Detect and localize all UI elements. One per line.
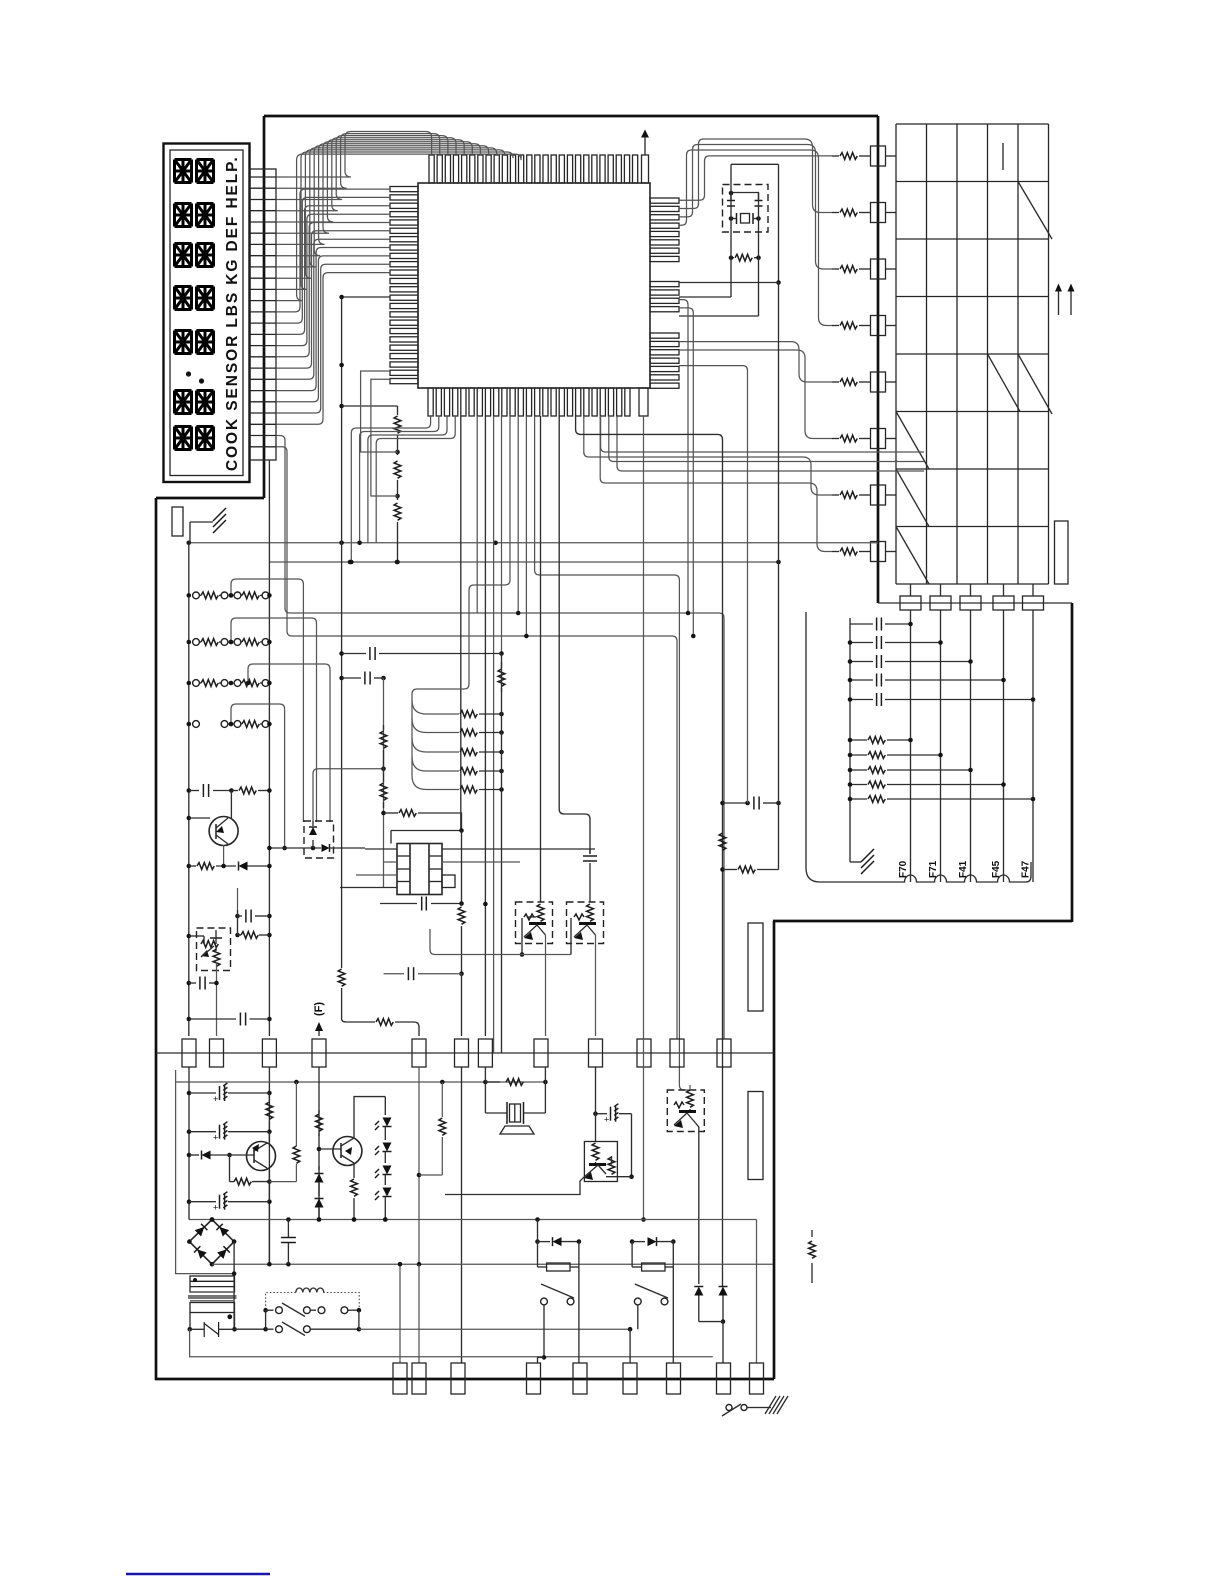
wire MCU bottom drop j12 <box>525 416 527 636</box>
wire jumper taps <box>231 579 303 822</box>
arrow indicator up 1 <box>1058 290 1060 315</box>
wire stub left <box>445 1194 470 1196</box>
connector CN2 pin2 <box>412 1363 426 1394</box>
svg-text:+: + <box>213 1133 218 1143</box>
key matrix grid <box>895 124 897 584</box>
tall connector strip 1 <box>748 923 763 1011</box>
capacitor C-key2 <box>850 642 873 644</box>
digital transistor Q3 dashed box <box>197 928 231 971</box>
wire Q11 collector resistor <box>353 1163 355 1178</box>
connector pin row2 <box>871 203 886 223</box>
wire MCU bottom drop j8 <box>493 416 495 1053</box>
wire column bus down <box>910 610 912 882</box>
resistor R-key4 <box>850 784 867 786</box>
capacitor C14 <box>339 651 344 656</box>
connector pin row3 <box>871 259 886 279</box>
connector strip right of matrix <box>1055 521 1069 584</box>
wire bottom border <box>155 1378 774 1381</box>
relay RY1 contact set 2 <box>263 1327 268 1332</box>
resonator X1 dashed box <box>723 185 769 233</box>
wire right pin drop to rail y613 <box>679 300 688 613</box>
connector pin row5 <box>871 372 886 392</box>
capacitor C-key3 <box>850 661 873 663</box>
wire bundle MCU bottom left curl <box>351 416 430 562</box>
connector CN2 pin9 <box>750 1363 764 1394</box>
wire resonator loop top <box>731 163 779 165</box>
key matrix column connectors <box>910 584 912 596</box>
wire rail y542 <box>189 542 878 544</box>
switch SW1 <box>578 1267 580 1363</box>
key S1 diagonal row2 col5 <box>1018 182 1052 240</box>
display DS1 outer frame <box>164 144 250 483</box>
base resistor Q13 <box>674 1102 684 1108</box>
ground keypad <box>849 852 851 862</box>
switch SW2 <box>634 1298 641 1305</box>
capacitor C24 <box>287 1220 289 1238</box>
resistor R-row5 <box>832 381 839 383</box>
link underline <box>126 1573 270 1576</box>
display 14-segment digit row5 col1 <box>175 331 192 354</box>
wire x461 down <box>461 831 463 904</box>
resistor R30 vertical <box>501 662 503 668</box>
key S2 diagonal row5 col4 <box>988 354 1021 412</box>
capacitor C-key4 <box>850 679 873 681</box>
connector CN1 pin9 <box>589 1039 603 1067</box>
key S3 diagonal row5 col5 <box>1018 354 1052 414</box>
resistor R35 near F <box>342 1019 375 1022</box>
diode D13 <box>535 1217 540 1222</box>
wire display comb pin25 long run <box>276 447 677 1039</box>
electrolytic C21 <box>187 1129 192 1134</box>
wire chain tap 1 <box>361 371 398 452</box>
display 14-segment digit row3 col1 <box>175 244 192 267</box>
jumper resistor row 2 <box>187 640 192 645</box>
base resistor Q6 <box>574 914 584 920</box>
wire transformer top link <box>391 830 462 832</box>
display 14-segment digit row1 col2 <box>197 160 214 183</box>
resonator X1 internal capacitors <box>727 200 735 202</box>
resistor R41 <box>720 867 725 872</box>
svg-text:+: + <box>604 1115 609 1125</box>
base resistor Q5 <box>524 914 534 920</box>
resistor R51 base <box>229 1155 231 1182</box>
relay RY1 contact set 1 <box>263 1308 268 1313</box>
svg-text:F47: F47 <box>1021 860 1032 878</box>
wire MCU bottom drop j9 <box>501 416 503 654</box>
wire x545 lower <box>544 1067 546 1082</box>
thermal cutout on primary <box>189 1313 191 1330</box>
driver box Q12 <box>584 1142 617 1182</box>
capacitor C17 <box>384 973 405 975</box>
VCC arrow <box>644 137 646 155</box>
wire MCU osc return <box>679 296 731 298</box>
resistor R-key5 <box>850 798 867 800</box>
arrow indicator up 2 <box>1070 290 1072 315</box>
wire rail x501 vertical <box>501 654 503 1054</box>
resistor R59 standalone <box>811 1230 813 1237</box>
digital transistor Q6 dashed box <box>567 902 604 944</box>
transistor Q2 circle <box>209 817 238 846</box>
key tick row1 col4 <box>1002 143 1004 170</box>
wire bundle display to MCU top pins <box>276 132 432 178</box>
resistor R-ladder5 <box>412 776 459 790</box>
wire rail y1264 <box>212 1263 773 1265</box>
connector CN1 pin5 <box>412 1039 426 1067</box>
wire resonator left leg <box>730 164 732 297</box>
resistor across resonator <box>731 257 734 259</box>
connector CN1 pin11 <box>670 1039 684 1067</box>
capacitor C16 <box>380 903 417 905</box>
connector pin row4 <box>871 316 886 336</box>
wire matrix bottom link <box>878 602 1072 604</box>
electrolytic C23 <box>593 1111 598 1116</box>
jumper row 4 <box>187 722 192 727</box>
wire bottom switch <box>726 1405 732 1411</box>
wire rail y562 <box>269 561 778 563</box>
display 14-segment digit row5 col2 <box>197 331 214 354</box>
wire Q11 emitter top <box>354 1097 385 1138</box>
connector CN1 pin2 <box>210 1039 224 1067</box>
resistor R56 in box <box>608 1157 615 1174</box>
buzzer BZ1 <box>484 1082 486 1113</box>
connector pin row7 <box>871 485 886 505</box>
capacitor C-key1 <box>850 623 873 625</box>
resistor R20 <box>235 933 240 938</box>
resistor R31 vertical <box>383 725 385 730</box>
wire x485 vertical <box>484 904 486 1036</box>
display 14-segment digit row6 col2 <box>197 391 214 414</box>
wire lower left drop <box>176 1070 234 1274</box>
wire rail x383 <box>383 678 385 887</box>
resistor R-key3 <box>850 769 867 771</box>
wire switch rail y1219 corner <box>756 1220 758 1364</box>
display 14-segment digit row4 col2 <box>197 287 214 310</box>
connector pin row1 <box>871 146 886 166</box>
wire right pin drop to rail y636 <box>679 308 693 636</box>
connector CN1 pin10 <box>637 1039 651 1067</box>
wire MCU to resonator bottom <box>679 282 779 284</box>
wire lower rail B <box>268 1067 270 1264</box>
connector CN1 pin4 <box>312 1039 326 1067</box>
resistor R-ladder1 <box>412 700 459 714</box>
connector tab <box>172 507 183 536</box>
wire right border lower <box>773 921 776 1379</box>
resistor R58 rect <box>631 1242 633 1267</box>
capacitor C15 <box>339 676 344 681</box>
MCU U1 left pin comb <box>390 187 418 192</box>
wire x723 rail <box>576 416 723 1287</box>
wire MCU bottom pins to matrix rows 7-8 <box>584 416 832 495</box>
resistor and diode row <box>187 864 192 869</box>
transistor Q10 <box>247 1142 276 1171</box>
wire diode join <box>699 1321 723 1323</box>
tall connector strip 2 <box>748 1092 763 1180</box>
resistor R50 vertical <box>268 1093 270 1101</box>
svg-text:F70: F70 <box>898 860 909 878</box>
wire rail y1082 <box>176 1081 545 1083</box>
connector CN1 pin1 <box>182 1039 196 1067</box>
resistor R-ladder2 <box>412 719 459 733</box>
display connector comb <box>250 169 276 460</box>
svg-text:F41: F41 <box>958 860 969 878</box>
keypad cable boundary <box>806 612 1031 882</box>
wire relay to switches rail <box>359 1328 630 1330</box>
transformer T2 core <box>188 1295 237 1297</box>
wire Q13 collector top <box>689 1085 691 1090</box>
connector CN1 pin8 <box>534 1039 548 1067</box>
capacitor C10 with resistor <box>187 788 192 793</box>
wire base rail <box>430 929 571 955</box>
wire primary to relay <box>235 1328 266 1330</box>
key S5 diagonal row7 col1 <box>896 469 929 527</box>
wire chain tap 2 <box>371 379 398 496</box>
capacitor C19 <box>723 802 751 804</box>
svg-text:F45: F45 <box>991 860 1002 878</box>
transistor Q11 <box>333 1137 362 1166</box>
wire rail y1219 <box>189 1219 757 1221</box>
resistor R53 <box>318 1110 320 1113</box>
electrolytic C20 <box>187 1091 192 1096</box>
wire left pin drop rail3 <box>342 297 390 968</box>
transformer T1 <box>397 844 442 895</box>
connector CN1 pin6 <box>455 1039 469 1067</box>
diode D14 <box>630 1239 635 1244</box>
wire rail C <box>318 1067 320 1220</box>
wire keypad left rail <box>849 618 851 852</box>
transformer T2 secondary winding <box>190 1276 235 1292</box>
diode D16 <box>719 1287 728 1296</box>
display DS1 inner frame <box>170 150 243 476</box>
relay RY1 coil <box>296 1288 324 1293</box>
wire T1 left leads <box>365 848 397 850</box>
connector CN1 pin3 <box>262 1039 276 1067</box>
dashed transistor Q13 <box>667 1090 704 1132</box>
svg-text:COOK SENSOR LBS KG DEF HELP.: COOK SENSOR LBS KG DEF HELP. <box>224 155 241 471</box>
digital transistor Q5 dashed box <box>516 902 553 944</box>
svg-text:(F): (F) <box>313 1002 325 1016</box>
svg-text:F71: F71 <box>928 860 939 878</box>
display colon dots <box>186 371 191 376</box>
resistor R55 buzzer <box>485 1081 500 1083</box>
wire MCU bottom drop j13 to Q13 <box>535 416 690 1090</box>
electrolytic C22 <box>187 1199 192 1204</box>
wire bundle display to MCU left pins <box>276 189 390 312</box>
wire left border upper <box>263 116 266 498</box>
display 14-segment digit row2 col1 <box>175 204 192 227</box>
wire MCU right pin loops to matrix rows 2-4 <box>679 139 832 213</box>
ground chassis top <box>190 521 213 523</box>
MCU U1 bottom pin comb <box>428 388 433 416</box>
wire bridge right down <box>233 1242 235 1330</box>
connector CN1 pin12 <box>717 1039 731 1067</box>
connector CN2 pin5 <box>573 1363 587 1394</box>
key S4 diagonal row6 col1 <box>896 412 929 470</box>
wire MCU right pin loop to matrix row1 <box>679 156 832 200</box>
resistor R52 drop <box>295 1082 297 1146</box>
capacitor C-key5 <box>850 699 873 701</box>
bridge rectifier BD1 <box>189 1220 234 1265</box>
transformer T1 aux tab <box>442 875 455 888</box>
wire rail2 vertical <box>268 460 270 1036</box>
wire bottom box feeds <box>629 1329 631 1363</box>
wire display comb pin24 long run <box>276 436 724 1040</box>
wire resonator right leg <box>758 193 760 316</box>
resonator X1 crystal element <box>741 214 750 224</box>
wire MCU bottom right curls <box>601 416 924 452</box>
wire MCU corner pin long drop <box>643 416 645 1220</box>
wire Q10 collector <box>268 1170 270 1264</box>
connector CN1 pin7 <box>478 1039 492 1067</box>
wire section divider <box>156 1052 774 1054</box>
wire resonator right leg return <box>679 315 759 317</box>
display 14-segment digit row4 col1 <box>175 287 192 310</box>
wire MCU bottom drop j7 <box>484 416 486 904</box>
wire rail1 vertical <box>188 543 190 1036</box>
resistor R-key1 <box>850 739 867 741</box>
resistor R33 <box>381 811 386 816</box>
resistor R57 rect <box>537 1242 539 1267</box>
resistor R-row7 <box>832 494 839 496</box>
resistor R-row8 <box>832 551 839 553</box>
resistor R-key2 <box>850 754 867 756</box>
ground bottom right <box>760 1407 771 1409</box>
MCU U1 right pin comb <box>650 198 679 203</box>
display 14-segment digit row7 col1 <box>175 427 192 450</box>
wire top border <box>264 115 878 118</box>
wire ladder feed from MCU pin <box>412 416 510 776</box>
capacitor C13 <box>187 1017 192 1022</box>
wire MCU bottom drop j11 <box>517 416 519 613</box>
connector CN2 pin1 <box>393 1363 407 1394</box>
wire MCU bottom drop collector Q5 <box>540 416 542 902</box>
jumper resistor row 3 <box>187 681 192 686</box>
capacitor C18 on Q6 collector <box>589 849 591 854</box>
resistor R-ladder3 <box>412 738 459 752</box>
display 14-segment digit row1 col1 <box>175 160 192 183</box>
wire x778 down <box>778 283 780 870</box>
MCU U1 top pin comb <box>429 155 434 183</box>
wire opto up <box>313 769 384 821</box>
diode D10 <box>187 1153 192 1158</box>
transformer T2 primary winding <box>190 1303 235 1313</box>
wire resonator loop right <box>778 164 780 282</box>
MCU U1 top-right power pin <box>642 155 649 183</box>
jumper resistor row 1 <box>187 593 192 598</box>
wire x485 lower <box>484 1067 486 1082</box>
svg-text:+: + <box>213 1203 218 1213</box>
wire lower rail A <box>188 1067 190 1212</box>
display 14-segment digit row7 col2 <box>197 427 214 450</box>
wire Q13 emitter down <box>696 1123 699 1284</box>
wire x419 lower <box>418 1067 420 1264</box>
connector CN2 pin3 <box>451 1363 465 1394</box>
relay RY1 dashed frame <box>266 1293 360 1311</box>
MCU U1 body <box>418 183 650 388</box>
wire border right of key matrix <box>1071 603 1074 922</box>
diode D12 <box>315 1199 324 1208</box>
wire x400 drop <box>399 1264 401 1363</box>
MCU U1 bottom-right pin <box>639 388 648 416</box>
resistor R40 vertical <box>719 833 726 850</box>
resonator X1 top link <box>731 193 759 201</box>
key matrix common bus <box>877 116 880 603</box>
wire Q12 emitter <box>470 1177 584 1195</box>
resistor R32 vertical <box>383 769 385 782</box>
resistor R54 drop <box>441 1082 443 1117</box>
connector CN2 pin7 <box>667 1363 681 1394</box>
connector pin row8 <box>871 542 886 562</box>
wire left border <box>155 498 158 1380</box>
connector CN2 pin8 <box>717 1363 731 1394</box>
connector pin row6 <box>871 429 886 449</box>
wire x461 lower <box>461 1067 463 1363</box>
resistor R-row6 <box>832 438 839 440</box>
wire MCU bottom drop j4 <box>460 416 462 831</box>
wire MCU bottom drop j16 to C18 <box>559 416 590 854</box>
wire T2 bottom left <box>190 1329 713 1357</box>
svg-text:+: + <box>213 1094 218 1104</box>
wire MCU bottom drop j6 <box>476 416 478 613</box>
wire x419 to box <box>418 1264 420 1363</box>
display 14-segment digit row2 col2 <box>197 204 214 227</box>
connector CN2 pin6 <box>623 1363 637 1394</box>
wire right pin to C19 <box>679 366 748 803</box>
key S6 diagonal row8 col1 <box>896 527 929 585</box>
capacitor C12 <box>187 981 192 986</box>
resistor R-row1 <box>832 155 839 157</box>
wire MCU right pins to matrix rows 5-6 <box>679 342 832 382</box>
resistor R36 on rail3 <box>338 969 345 986</box>
diode D11 <box>318 1166 320 1170</box>
display 14-segment digit row6 col1 <box>175 391 192 414</box>
diode D15 <box>698 1283 700 1285</box>
capacitor C11 <box>267 914 272 919</box>
resistor chain pullups <box>342 405 398 407</box>
resistor R-row2 <box>832 212 839 214</box>
connector CN2 pin4 <box>527 1363 541 1394</box>
LED column <box>384 1097 386 1115</box>
display 14-segment digit row3 col2 <box>197 244 214 267</box>
resistor R-row3 <box>832 268 839 270</box>
photocoupler dashed box <box>304 821 334 858</box>
resistor R-ladder4 <box>412 757 459 771</box>
resistor R-row4 <box>832 325 839 327</box>
wire x595 down <box>595 1067 597 1142</box>
wire border step <box>156 497 264 500</box>
wire T1 right leads <box>442 848 595 850</box>
wire border bottom-right horizontal <box>773 920 1072 923</box>
